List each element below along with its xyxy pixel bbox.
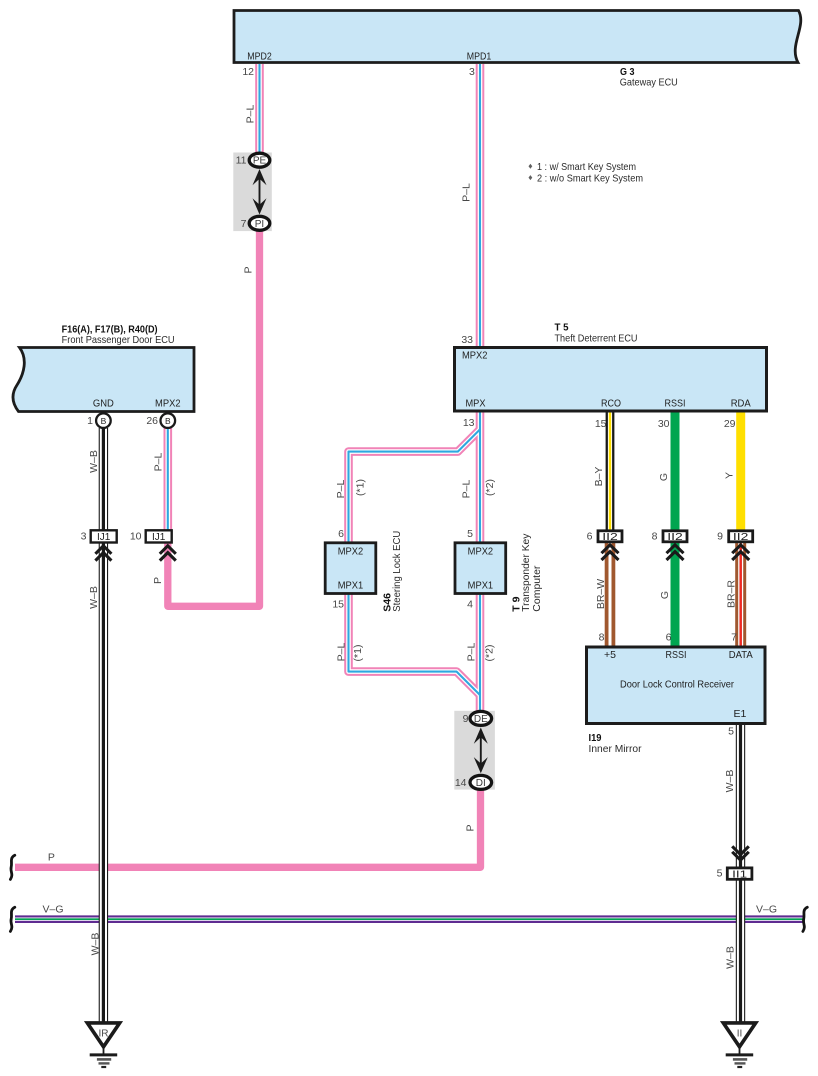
oval terminal DI pin 14 xyxy=(470,775,492,789)
label G 3 / Gateway ECU xyxy=(620,66,678,89)
svg-text:(*2): (*2) xyxy=(484,645,496,662)
arrow between PE and PI xyxy=(253,169,267,215)
svg-text:P–L: P–L xyxy=(461,480,473,499)
chevron marks below II2 pin 9 xyxy=(732,545,749,560)
svg-text:MPX: MPX xyxy=(466,398,486,410)
label F16(A), F17(B), R40(D) / Front Passenger Door ECU xyxy=(62,324,175,346)
svg-text:P–L: P–L xyxy=(336,643,348,662)
svg-text:IR: IR xyxy=(99,1029,109,1040)
svg-text:(*1): (*1) xyxy=(355,479,367,496)
svg-text:DATA: DATA xyxy=(729,649,753,661)
svg-text:2 : w/o Smart Key System: 2 : w/o Smart Key System xyxy=(537,172,643,184)
wire G from II2 pin 8 to receiver RSSI pin 6 xyxy=(671,543,680,648)
svg-text:Y: Y xyxy=(724,472,736,479)
box I19 Door Lock Control Receiver xyxy=(587,647,766,724)
svg-text:29: 29 xyxy=(724,418,736,430)
chevron marks below II2 pin 8 xyxy=(667,545,684,560)
wire P bottom horizontal (DI to left break) xyxy=(15,789,481,867)
connector PE/PI (gray block) xyxy=(233,153,271,232)
svg-text:Theft Deterrent ECU: Theft Deterrent ECU xyxy=(555,333,638,345)
wire V-G horizontal xyxy=(15,915,805,923)
junction connector II2 pin 6 xyxy=(598,531,622,542)
svg-text:10: 10 xyxy=(130,531,142,543)
svg-text:P: P xyxy=(465,824,477,831)
wire BR-W from II2 pin 6 to receiver +5 pin 8 xyxy=(605,543,616,648)
svg-text:MPX2: MPX2 xyxy=(468,545,494,557)
svg-text:BR–W: BR–W xyxy=(595,579,607,609)
svg-text:14: 14 xyxy=(455,777,467,789)
svg-text:MPX1: MPX1 xyxy=(468,579,494,591)
svg-text:PI: PI xyxy=(255,219,264,230)
wire P from PI pin 7 to IJ1 pin 10 xyxy=(168,230,260,606)
svg-text:33: 33 xyxy=(461,334,473,346)
chevron marks above II1 pin 5 (pointing down) xyxy=(732,846,749,860)
svg-text:5: 5 xyxy=(467,528,473,540)
svg-text:MPX2: MPX2 xyxy=(338,545,364,557)
svg-text:4: 4 xyxy=(467,599,473,611)
box T9 Transponder Key Computer xyxy=(455,543,506,594)
label T 9 / Transponder Key Computer (rotated) xyxy=(511,533,544,612)
svg-text:B–Y: B–Y xyxy=(593,467,605,487)
svg-text:MPD2: MPD2 xyxy=(247,51,272,63)
svg-text:II: II xyxy=(737,1029,743,1040)
svg-text:13: 13 xyxy=(463,417,475,429)
svg-text:P–L: P–L xyxy=(335,480,347,499)
svg-text:P–L: P–L xyxy=(461,183,473,202)
svg-text:P–L: P–L xyxy=(245,105,257,124)
svg-text:30: 30 xyxy=(658,418,670,430)
junction connector II1 pin 5 xyxy=(727,868,752,879)
svg-text:9: 9 xyxy=(463,713,469,725)
ECU box T5 Theft Deterrent ECU xyxy=(455,348,767,412)
svg-text:V–G: V–G xyxy=(756,903,777,915)
svg-text:G: G xyxy=(659,591,671,599)
label I19 / Inner Mirror xyxy=(589,732,642,755)
svg-text:9: 9 xyxy=(717,531,723,543)
wire W-B from GND pin 1 to IJ1 pin 3 xyxy=(99,428,108,530)
svg-text:RSSI: RSSI xyxy=(665,398,686,410)
svg-text:MPD1: MPD1 xyxy=(467,51,492,63)
wire P-L from G3 MPD2 pin 12 to connector PE xyxy=(255,64,264,154)
svg-text:IJ1: IJ1 xyxy=(152,532,166,543)
svg-text:RSSI: RSSI xyxy=(666,649,687,661)
svg-text:W–B: W–B xyxy=(88,450,100,473)
svg-text:1: 1 xyxy=(87,415,93,427)
svg-text:Computer: Computer xyxy=(531,565,543,612)
oval terminal PI pin 7 xyxy=(249,216,270,230)
svg-text:DE: DE xyxy=(474,714,488,725)
svg-text:W–B: W–B xyxy=(90,933,102,956)
svg-text:V–G: V–G xyxy=(42,903,63,915)
svg-text:(*1): (*1) xyxy=(352,645,364,662)
wire net P-L: T5 MPX pin 13 to S46, T9, and connector DE xyxy=(349,411,481,712)
ground II xyxy=(723,1023,755,1067)
ECU box G3 Gateway ECU xyxy=(234,11,801,63)
chevron marks below IJ1 pin 3 xyxy=(95,546,111,561)
svg-text:P: P xyxy=(152,577,164,584)
label T 5 / Theft Deterrent ECU xyxy=(555,322,638,345)
break symbol at right end of wire V-G xyxy=(803,907,807,931)
svg-text:DI: DI xyxy=(476,778,486,789)
svg-text:6: 6 xyxy=(666,632,672,644)
ECU box F16(A),F17(B),R40(D) Front Passenger Door ECU xyxy=(13,348,194,412)
svg-text:Steering Lock ECU: Steering Lock ECU xyxy=(391,531,403,612)
svg-text:IJ1: IJ1 xyxy=(97,532,111,543)
svg-text:PE: PE xyxy=(253,156,267,167)
svg-text:1 : w/ Smart Key System: 1 : w/ Smart Key System xyxy=(537,161,636,173)
svg-text:5: 5 xyxy=(717,868,723,880)
svg-text:Door Lock Control Receiver: Door Lock Control Receiver xyxy=(620,679,734,691)
svg-text:B: B xyxy=(101,416,107,426)
wire Y from T5 RDA pin 29 to II2 pin 9 xyxy=(736,411,745,531)
svg-text:Front Passenger Door ECU: Front Passenger Door ECU xyxy=(62,334,175,346)
svg-text:W–B: W–B xyxy=(724,770,736,793)
svg-text:I19: I19 xyxy=(589,732,602,744)
oval terminal DE pin 9 xyxy=(470,711,492,725)
svg-text:8: 8 xyxy=(599,632,605,644)
svg-text:6: 6 xyxy=(587,531,593,543)
svg-text:W–B: W–B xyxy=(725,946,737,969)
svg-text:3: 3 xyxy=(81,531,87,543)
svg-text:15: 15 xyxy=(595,418,607,430)
svg-text:Gateway ECU: Gateway ECU xyxy=(620,76,678,88)
svg-text:II1: II1 xyxy=(732,870,748,881)
break symbol at left end of wire P xyxy=(10,855,14,879)
svg-text:8: 8 xyxy=(652,531,658,543)
svg-text:II2: II2 xyxy=(667,532,683,543)
svg-text:7: 7 xyxy=(731,632,737,644)
svg-text:P–L: P–L xyxy=(466,643,478,662)
box S46 Steering Lock ECU xyxy=(325,543,376,594)
wire W-B from IJ1 pin 3 to ground IR xyxy=(99,543,108,1022)
wire P-L from MPX2 pin 26 to IJ1 pin 10 xyxy=(164,428,173,530)
chevron marks below II2 pin 6 xyxy=(602,545,619,560)
svg-text:+5: +5 xyxy=(604,649,616,661)
svg-text:RDA: RDA xyxy=(731,398,751,410)
ground IR xyxy=(87,1023,119,1067)
svg-text:6: 6 xyxy=(338,528,344,540)
label S46 / Steering Lock ECU (rotated) xyxy=(382,531,404,612)
wire B-Y from T5 RCO pin 15 to II2 pin 6 xyxy=(606,411,615,531)
svg-text:II2: II2 xyxy=(733,532,749,543)
svg-text:5: 5 xyxy=(728,726,734,738)
svg-text:7: 7 xyxy=(241,218,247,230)
svg-text:P–L: P–L xyxy=(153,453,165,472)
junction connector IJ1 pin 10 xyxy=(146,530,172,542)
svg-text:MPX2: MPX2 xyxy=(462,350,488,362)
svg-text:E1: E1 xyxy=(733,708,746,720)
arrow between DE and DI xyxy=(474,728,488,774)
svg-text:(*2): (*2) xyxy=(484,479,496,496)
wire P-L from G3 MPD1 pin 3 to T5 MPX2 pin 33 xyxy=(476,64,485,346)
svg-text:W–B: W–B xyxy=(88,586,100,609)
wire BR-R from II2 pin 9 to receiver DATA pin 7 xyxy=(735,543,746,648)
svg-text:RCO: RCO xyxy=(601,398,621,410)
svg-text:B: B xyxy=(165,416,171,426)
terminal circle B pin 26 (MPX2) xyxy=(161,413,176,428)
svg-text:12: 12 xyxy=(242,66,254,78)
svg-text:BR–R: BR–R xyxy=(725,580,737,608)
terminal circle B pin 1 (GND) xyxy=(96,413,111,428)
junction connector IJ1 pin 3 xyxy=(91,530,117,542)
svg-text:GND: GND xyxy=(93,398,114,410)
svg-text:11: 11 xyxy=(236,155,247,167)
wire G from T5 RSSI pin 30 to II2 pin 8 xyxy=(671,411,680,531)
junction connector II2 pin 9 xyxy=(729,531,753,542)
svg-text:26: 26 xyxy=(146,415,158,427)
connector DE/DI (gray block) xyxy=(454,711,495,790)
svg-text:Inner Mirror: Inner Mirror xyxy=(589,743,642,755)
oval terminal PE pin 11 xyxy=(249,153,270,167)
svg-text:II2: II2 xyxy=(602,532,618,543)
svg-text:MPX2: MPX2 xyxy=(155,398,181,410)
wire W-B from receiver E1 pin 5 to ground II xyxy=(736,725,745,1022)
svg-text:MPX1: MPX1 xyxy=(338,579,364,591)
note: smart key system xyxy=(529,161,644,184)
junction connector II2 pin 8 xyxy=(663,531,687,542)
chevron marks below IJ1 pin 10 xyxy=(160,546,176,561)
break symbol at left end of wire V-G xyxy=(10,907,14,931)
svg-text:P: P xyxy=(48,852,55,864)
svg-text:G: G xyxy=(658,473,670,481)
svg-text:3: 3 xyxy=(469,66,475,78)
svg-text:P: P xyxy=(243,266,255,273)
svg-text:15: 15 xyxy=(332,599,344,611)
